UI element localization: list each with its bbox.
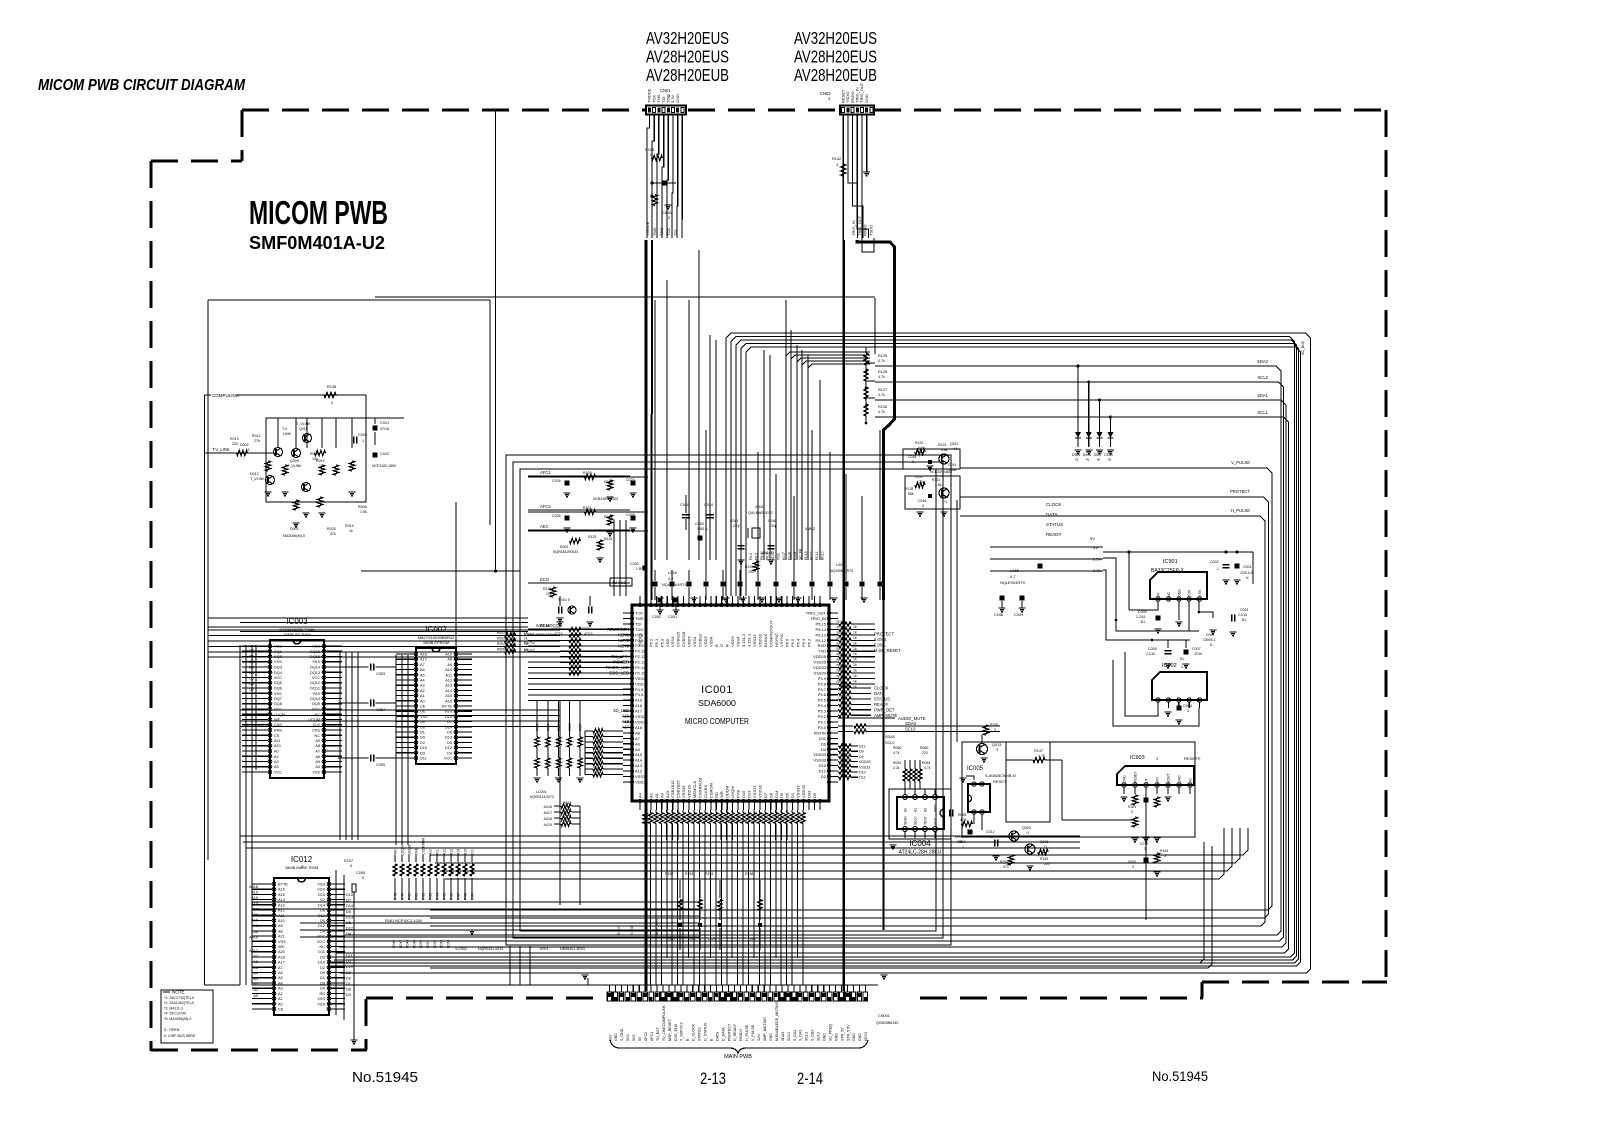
svg-text:A8: A8 [278,929,283,933]
svg-text:T 001 0: T 001 0 [558,598,570,602]
svg-text:AFC1: AFC1 [650,1032,654,1041]
svg-text:A1: A1 [914,808,918,812]
svg-text:AMP_MUTE: AMP_MUTE [874,713,897,718]
svg-text:P5.13: P5.13 [816,632,827,637]
svg-text:C001: C001 [1243,565,1252,569]
svg-text:1k: 1k [853,674,857,678]
svg-text:T_SDPVC2: T_SDPVC2 [680,1022,684,1041]
svg-text:A419: A419 [544,823,552,827]
svg-text:D9: D9 [821,741,827,746]
svg-text:A14: A14 [635,758,643,763]
svg-text:C022: C022 [380,452,389,456]
svg-text:D4: D4 [447,751,452,755]
svg-text:D12: D12 [318,924,325,928]
svg-text:R148: R148 [327,385,336,389]
svg-text:VCC: VCC [934,817,938,825]
svg-text:SCL0: SCL0 [905,727,916,732]
svg-text:RAS: RAS [274,729,282,733]
svg-text:C005: C005 [1138,610,1147,614]
svg-text:D6: D6 [447,731,452,735]
svg-text:P6.5: P6.5 [766,553,770,560]
svg-text:VSS: VSS [317,888,325,892]
svg-text:VSS4: VSS4 [736,636,741,647]
svg-text:D1: D1 [320,976,325,980]
svg-text:VSS33: VSS33 [796,785,801,798]
svg-text:D4: D4 [859,755,864,759]
svg-text:Q011: Q011 [950,442,959,446]
svg-text:Q010: Q010 [299,427,308,431]
svg-text:R129: R129 [583,471,592,475]
svg-text:P3.4: P3.4 [818,703,827,708]
svg-text:4.7k: 4.7k [960,818,967,822]
svg-text:0: 0 [350,864,352,868]
svg-text:P5.14: P5.14 [816,627,827,632]
svg-text:2-14: 2-14 [797,1070,823,1088]
svg-text:C005: C005 [356,871,365,875]
svg-text:GND: GND [823,1033,827,1041]
svg-text:NQR0313-0073: NQR0313-0073 [530,795,554,799]
svg-text:R152: R152 [665,872,673,876]
svg-text:Q012: Q012 [940,495,949,499]
svg-text:VSS: VSS [274,692,282,696]
svg-text:A19: A19 [622,714,630,719]
svg-text:A2: A2 [924,808,928,812]
svg-text:NCB33H04820: NCB33H04820 [930,470,952,474]
svg-text:A417: A417 [544,811,552,815]
svg-text:CKE: CKE [312,729,320,733]
svg-text:H_PULSE: H_PULSE [745,1024,749,1041]
svg-text:0: 0 [362,876,364,880]
svg-text:T_VLINK: T_VLINK [296,422,311,426]
svg-text:D10: D10 [819,763,827,768]
svg-text:D_READY: D_READY [733,1023,737,1041]
svg-text:10k: 10k [312,457,318,461]
svg-text:A7: A7 [635,736,641,741]
svg-text:A8: A8 [447,658,452,662]
svg-text:A3: A3 [274,765,279,769]
svg-text:SDA0: SDA0 [905,721,917,726]
svg-text:C014: C014 [948,463,956,467]
svg-text:No.51945: No.51945 [1152,1068,1208,1084]
svg-text:4MHZ: 4MHZ [805,527,816,531]
svg-text:H_PULSE: H_PULSE [1231,508,1250,513]
svg-text:SCL3: SCL3 [787,1032,791,1041]
svg-text:P5.2: P5.2 [648,638,653,647]
svg-text:BYTE: BYTE [278,883,288,887]
svg-text:A9: A9 [447,663,452,667]
svg-text:S2V: S2V [757,1034,761,1041]
svg-text:T.V_LINK: T.V_LINK [212,447,230,452]
svg-text:B1: B1 [1242,618,1246,622]
svg-text:56k: 56k [908,492,914,496]
svg-text:A19: A19 [635,698,643,703]
svg-text:SMF0M401A-U2: SMF0M401A-U2 [249,233,385,253]
svg-text:R114: R114 [837,642,845,646]
svg-text:C046: C046 [680,503,689,507]
svg-text:4.7: 4.7 [1010,574,1016,579]
svg-text:2.2/16: 2.2/16 [1136,615,1146,619]
svg-text:D2: D2 [821,774,827,779]
svg-text:P4.4: P4.4 [635,692,644,697]
svg-text:R136: R136 [543,587,551,591]
svg-text:3D_LED: 3D_LED [613,708,629,713]
svg-text:MEMCLK: MEMCLK [692,781,697,798]
svg-text:DQ12: DQ12 [310,681,320,685]
svg-text:3: 3 [836,163,838,167]
svg-text:R121: R121 [932,478,940,482]
svg-text:DQ6: DQ6 [274,687,282,691]
svg-text:L018: L018 [688,937,696,941]
svg-text:DQ5: DQ5 [274,681,282,685]
svg-text:A5: A5 [278,976,283,980]
svg-text:K016: K016 [788,552,792,560]
svg-text:SC_FB: SC_FB [799,548,803,560]
svg-text:C004: C004 [1206,633,1214,637]
svg-text:A8: A8 [315,744,320,748]
svg-text:A2: A2 [420,689,425,693]
svg-text:A0: A0 [253,994,258,998]
svg-text:TMS: TMS [635,616,644,621]
svg-text:VSS33: VSS33 [752,634,757,647]
svg-text:D9: D9 [346,976,351,980]
svg-text:R012: R012 [252,434,261,438]
svg-text:D11: D11 [318,950,325,954]
svg-text:SDA1: SDA1 [1257,393,1269,398]
svg-text:VIN: VIN [1156,777,1160,783]
svg-text:*5: *5 [959,840,962,844]
svg-text:C053: C053 [376,672,385,676]
svg-text:R115: R115 [837,647,845,651]
svg-text:A14: A14 [445,689,452,693]
svg-text:D14: D14 [318,903,325,907]
svg-text:STATUS: STATUS [1046,522,1063,527]
svg-text:AV32H20EUS: AV32H20EUS [646,28,729,48]
svg-text:R147: R147 [1034,749,1043,753]
svg-text:C055: C055 [376,763,385,767]
svg-text:A2: A2 [648,792,653,798]
svg-text:D12: D12 [859,776,866,780]
svg-text:T_VLINK: T_VLINK [287,464,302,468]
svg-text:A8: A8 [635,730,641,735]
svg-text:A6: A6 [635,741,641,746]
svg-text:D2: D2 [420,741,425,745]
svg-text:P6.3: P6.3 [801,638,806,647]
svg-text:TCK: TCK [666,228,671,236]
svg-text:R060: R060 [893,746,901,750]
svg-text:TDI: TDI [635,621,641,626]
svg-text:16MB SD-RAM: 16MB SD-RAM [283,632,310,637]
svg-text:RSTIN: RSTIN [814,730,826,735]
svg-text:200: 200 [471,849,475,855]
svg-text:VDD: VDD [665,638,670,647]
svg-text:SDA0: SDA0 [885,735,895,739]
svg-text:D8: D8 [420,725,425,729]
svg-text:TMS: TMS [652,227,657,236]
svg-text:VSS: VSS [274,660,282,664]
svg-text:D906: D906 [1083,453,1091,457]
svg-text:A12: A12 [635,769,643,774]
svg-text:1.8k: 1.8k [935,483,942,487]
svg-text:VSS: VSS [317,997,325,1001]
svg-text:P2.15: P2.15 [635,671,646,676]
svg-text:CE: CE [420,705,426,709]
svg-text:MA3056(M)-0: MA3056(M)-0 [283,534,305,538]
svg-text:A419: A419 [249,935,258,939]
svg-text:VSS33: VSS33 [681,785,686,798]
svg-text:CKE: CKE [415,847,419,855]
svg-text:5.0/AS: 5.0/AS [874,637,887,642]
svg-text:CSB1B25: CSB1B25 [676,780,681,798]
svg-text:A5: A5 [420,673,425,677]
svg-text:T.V: T.V [282,427,288,431]
svg-text:D3: D3 [420,751,425,755]
svg-text:VCC: VCC [444,757,452,761]
svg-text:STR_5.5V: STR_5.5V [846,1024,850,1041]
svg-text:P2.8: P2.8 [635,632,644,637]
svg-text:VCC: VCC [312,676,320,680]
svg-text:10k: 10k [319,464,325,468]
svg-text:A10: A10 [429,849,433,855]
svg-text:C4: C4 [1145,779,1149,783]
svg-text:A4: A4 [253,971,258,975]
svg-text:R005: R005 [497,647,505,651]
svg-text:A9: A9 [253,924,258,928]
svg-text:CLOCK: CLOCK [874,686,889,691]
svg-text:C003: C003 [1240,608,1248,612]
svg-text:RESET: RESET [1134,772,1138,783]
svg-text:A17: A17 [622,724,630,729]
svg-text:V_PULSE: V_PULSE [1231,460,1250,465]
svg-text:C015: C015 [908,455,916,459]
svg-text:D15: D15 [318,893,325,897]
svg-text:2.7p: 2.7p [733,524,740,528]
svg-text:VDD33: VDD33 [635,780,649,785]
svg-text:1.5k: 1.5k [360,510,367,514]
svg-text:S_DB2: S_DB2 [811,1030,815,1041]
svg-text:R 89: R 89 [471,893,475,900]
svg-text:A7: A7 [278,966,283,970]
svg-text:C030: C030 [630,562,639,566]
svg-text:*5: *5 [1075,458,1078,462]
svg-text:P3.2: P3.2 [818,714,827,719]
svg-text:PVB: PVB [736,790,741,798]
svg-text:L009: L009 [836,563,844,567]
svg-text:IC012: IC012 [291,855,313,864]
svg-text:A4: A4 [315,765,320,769]
svg-text:NC: NC [315,734,321,738]
svg-text:R 83: R 83 [429,893,433,900]
svg-text:1k: 1k [349,529,353,533]
svg-text:B: B [714,644,719,647]
svg-text:ECL3: ECL3 [804,551,808,560]
svg-text:A3: A3 [278,987,283,991]
svg-text:3: 3 [996,748,998,752]
svg-text:A12: A12 [443,849,447,855]
svg-text:R154: R154 [705,872,713,876]
svg-text:2.2/16: 2.2/16 [1146,652,1155,656]
svg-text:DATA: DATA [715,1031,719,1041]
svg-text:QGB15B6140: QGB15B6140 [876,1021,898,1025]
svg-text:C059: C059 [695,522,704,526]
svg-text:TRIG_IN: TRIG_IN [810,616,826,621]
svg-text:A4: A4 [420,679,425,683]
svg-text:R132: R132 [604,515,613,519]
svg-text:A9: A9 [315,739,320,743]
svg-text:C008: C008 [1183,704,1192,708]
svg-text:4.7k: 4.7k [924,766,931,770]
svg-text:CLKEN: CLKEN [703,785,708,798]
svg-text:A6: A6 [315,755,320,759]
svg-text:A0: A0 [420,699,425,703]
svg-text:R044: R044 [563,813,571,817]
svg-text:M.SP_RESET: M.SP_RESET [874,648,901,653]
svg-text:*5: *5 [1086,458,1089,462]
svg-text:D9: D9 [420,736,425,740]
svg-text:TMODE: TMODE [645,221,650,236]
svg-text:*5: *5 [1097,458,1100,462]
svg-text:*1: *1 [954,447,957,451]
svg-text:DVD_END: DVD_END [674,1023,678,1041]
svg-text:R113: R113 [837,636,845,640]
svg-text:47/16: 47/16 [380,427,389,431]
svg-text:R 85: R 85 [443,893,447,900]
svg-text:Q009: Q009 [290,459,299,463]
svg-text:R134: R134 [604,537,612,541]
svg-text:MSP_RESET: MSP_RESET [668,1018,672,1041]
svg-text:C027: C027 [582,627,591,631]
svg-text:A15: A15 [445,694,452,698]
svg-text:CSDRAUM: CSDRAUM [422,838,426,855]
svg-text:GND: GND [614,1033,618,1041]
svg-text:DQ9: DQ9 [312,702,320,706]
svg-text:4.7k: 4.7k [893,751,900,755]
svg-text:D_STATUS: D_STATUS [704,1022,708,1041]
svg-text:SCL1: SCL1 [1258,410,1269,415]
svg-text:ECO: ECO [540,577,550,582]
svg-text:VDD25: VDD25 [635,720,649,725]
svg-text:A418: A418 [249,885,258,889]
svg-text:4.7: 4.7 [668,576,674,581]
svg-text:GND: GND [864,94,869,103]
svg-text:IC005: IC005 [967,766,984,772]
svg-text:SCL2: SCL2 [1258,375,1269,380]
svg-text:HSYNC: HSYNC [774,633,779,647]
svg-text:VCC: VCC [274,771,282,775]
svg-text:UDQM: UDQM [408,844,412,855]
svg-text:R158: R158 [745,872,753,876]
svg-text:VDD33: VDD33 [859,760,871,764]
svg-text:D11: D11 [819,736,827,741]
svg-text:P2.11: P2.11 [635,649,646,654]
svg-text:A1: A1 [278,997,283,1001]
svg-text:AFC1: AFC1 [540,470,551,475]
svg-text:STATUS: STATUS [874,696,890,701]
svg-text:Q020: Q020 [1022,826,1031,830]
svg-text:A11: A11 [446,673,452,677]
svg-text:CSDRAUM: CSDRAUM [698,778,703,798]
svg-text:R122: R122 [915,441,923,445]
svg-text:A2: A2 [278,992,283,996]
svg-text:R121: R121 [837,680,845,684]
svg-text:Q40 BWR 0012: Q40 BWR 0012 [748,511,773,515]
svg-text:1k: 1k [853,631,857,635]
svg-text:A3: A3 [253,977,258,981]
svg-text:A18: A18 [278,955,285,959]
svg-text:A15: A15 [464,849,468,855]
svg-text:IC003: IC003 [286,617,308,626]
svg-text:10k: 10k [546,592,552,596]
svg-text:R004: R004 [497,642,505,646]
svg-text:GND: GND [1123,775,1127,783]
svg-text:B1: B1 [1180,657,1184,661]
svg-text:VSS33: VSS33 [752,785,757,798]
svg-text:D8: D8 [346,988,351,992]
svg-text:R 88: R 88 [464,893,468,900]
svg-text:IC903: IC903 [1130,755,1145,761]
svg-text:P6.4: P6.4 [796,638,801,647]
svg-text:R 82: R 82 [422,893,426,900]
svg-text:VSS: VSS [317,1002,325,1006]
svg-text:27k: 27k [254,439,260,443]
svg-text:R153: R153 [685,872,693,876]
svg-text:P5.15: P5.15 [816,621,827,626]
svg-text:R119: R119 [837,669,845,673]
svg-text:A9: A9 [278,924,283,928]
svg-text:P3.9: P3.9 [818,676,827,681]
svg-text:D1: D1 [420,731,425,735]
svg-text:D15: D15 [741,790,746,798]
svg-text:GND: GND [858,1033,862,1041]
svg-text:VDD33: VDD33 [801,784,806,798]
svg-text:4.7k: 4.7k [1038,754,1045,758]
svg-text:GND: GND [834,1033,838,1041]
svg-text:READY: READY [874,702,889,707]
svg-text:D14: D14 [346,904,353,908]
svg-text:22p: 22p [919,480,925,484]
svg-text:AFC2: AFC2 [644,1032,648,1041]
svg-text:RESET: RESET [993,779,1007,784]
svg-text:R158: R158 [793,552,797,560]
svg-text:NQLESK4R7S: NQLESK4R7S [1000,581,1025,585]
svg-text:DQ11: DQ11 [310,687,320,691]
svg-text:L019: L019 [708,937,716,941]
svg-text:1k: 1k [853,658,857,662]
svg-text:DQ10: DQ10 [310,697,320,701]
svg-text:47/16: 47/16 [554,632,563,636]
svg-text:TM ODE: TM ODE [612,581,627,585]
svg-text:RESET®: RESET® [1184,756,1200,761]
svg-text:A1: A1 [654,792,659,798]
svg-text:A15: A15 [635,752,643,757]
svg-text:LINK: LINK [283,432,292,436]
svg-text:3: 3 [994,728,996,732]
svg-text:VSS33: VSS33 [814,671,827,676]
svg-text:*4: 25C13740: *4: 25C13740 [164,1012,186,1016]
svg-text:*2: 25A1362(TE)-0: *2: 25A1362(TE)-0 [164,1001,194,1005]
svg-text:Q013: Q013 [992,743,1001,747]
svg-text:100: 100 [748,570,754,574]
svg-text:4.7k: 4.7k [878,410,885,414]
svg-text:2.5V: 2.5V [1198,589,1202,597]
svg-text:R128: R128 [878,405,887,409]
svg-text:47/16: 47/16 [1194,652,1202,656]
svg-text:A2: A2 [274,760,279,764]
svg-text:R003: R003 [497,637,505,641]
svg-text:LDQM: LDQM [401,845,405,855]
svg-text:D012: D012 [250,472,259,476]
svg-text:A5: A5 [635,747,641,752]
svg-text:VCC: VCC [274,676,282,680]
